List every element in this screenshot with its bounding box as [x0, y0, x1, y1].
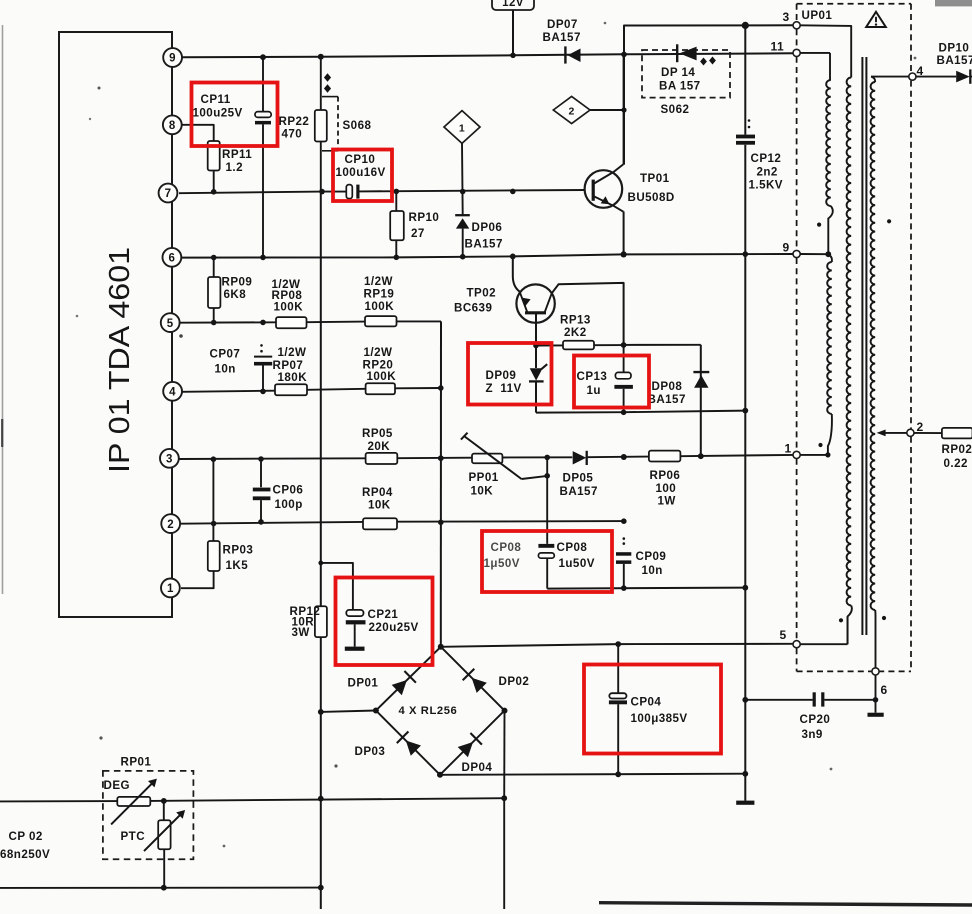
resistor RP22 470: [279, 57, 327, 192]
svg-text:BA157: BA157: [465, 237, 503, 250]
bridge diode DP03: [355, 711, 441, 775]
warning triangle: [866, 12, 886, 27]
svg-text:2K2: 2K2: [564, 326, 587, 339]
wire pin2 line: [181, 518, 627, 524]
svg-text:1: 1: [459, 122, 465, 134]
transformer UP01 dashed box: [797, 4, 911, 672]
svg-text:6K8: 6K8: [224, 288, 247, 301]
wire CP21 branch: [318, 561, 353, 610]
svg-text:RP02: RP02: [942, 443, 972, 456]
node 1: [785, 442, 801, 459]
svg-text:DP04: DP04: [462, 761, 493, 774]
svg-text:8: 8: [169, 120, 176, 132]
test point diamond 2: [553, 96, 590, 123]
diode DP14: [659, 44, 701, 92]
svg-text:RP05: RP05: [362, 427, 393, 440]
svg-text:DEG: DEG: [104, 779, 130, 792]
wire diamond2 link: [590, 107, 627, 112]
wire node5 line right stub: [800, 617, 848, 645]
capacitor CP12 2n2 1.5KV: [736, 25, 783, 191]
wire node1 stub: [800, 454, 828, 456]
svg-text:1μ50V: 1μ50V: [484, 557, 520, 570]
wire pin3 line: [179, 453, 793, 462]
svg-text:RP13: RP13: [560, 314, 591, 327]
svg-text:1.2: 1.2: [226, 161, 243, 174]
svg-text:RP22: RP22: [279, 115, 310, 128]
IC U-IP01 TDA4601 body: [59, 32, 172, 617]
resistor RP20 100K: [363, 346, 397, 395]
winding W4 secondary node4 to node6: [871, 77, 876, 668]
svg-text:7: 7: [165, 188, 172, 200]
resistor RP19 100K: [364, 275, 397, 326]
svg-text:RP11: RP11: [222, 148, 252, 161]
svg-text:11: 11: [771, 40, 785, 54]
zener DP09 Z11V: [486, 346, 548, 413]
svg-text:DP07: DP07: [547, 18, 578, 31]
resistor RP10 27: [390, 191, 439, 260]
pin 9 of IP01: [163, 48, 182, 67]
node 9: [783, 241, 801, 258]
wire right return rail: [742, 145, 748, 801]
svg-text:BA157: BA157: [560, 485, 598, 498]
svg-text:1/2W: 1/2W: [278, 346, 307, 359]
resistor RP06 100 1W: [649, 451, 681, 508]
dashed select box S062: [642, 50, 730, 116]
pin 4 of IP01: [163, 382, 182, 401]
capacitor CP04 100u385V: [609, 644, 688, 774]
capacitor CP06 100p: [253, 459, 304, 525]
svg-text:TP01: TP01: [640, 172, 670, 185]
svg-text:DP10: DP10: [939, 41, 970, 54]
grey scan block top-right: [935, 0, 972, 6]
diode DP08: [624, 345, 710, 456]
capacitor CP21 220u25V: [345, 608, 419, 651]
wire CP08 CP09 return line: [547, 585, 748, 591]
diode DP07: [543, 18, 581, 64]
svg-text:CP07: CP07: [210, 348, 241, 361]
wire TP01 emitter to 9-line: [623, 211, 625, 254]
wire pin6 to node9 line: [181, 251, 793, 260]
svg-text:9: 9: [783, 241, 790, 255]
svg-text:100K: 100K: [274, 301, 304, 314]
svg-text:10K: 10K: [471, 485, 494, 498]
transformer core: [862, 57, 866, 635]
svg-text:100K: 100K: [365, 300, 395, 313]
svg-text:DP05: DP05: [563, 472, 594, 485]
capacitor CP08 1u50V: [484, 457, 595, 588]
node 2: [907, 420, 924, 436]
wire 12V stub: [512, 10, 514, 55]
wire node2 tap with arrow: [877, 430, 942, 437]
wire DP09 CP13 return line: [536, 408, 748, 415]
wire DC minus line: [440, 771, 748, 777]
resistor RP0 0.22: [942, 428, 972, 470]
highlight box CP11: [192, 83, 278, 147]
svg-text:BA157: BA157: [937, 54, 972, 67]
wire pin4 line: [182, 388, 441, 392]
svg-text:3: 3: [783, 10, 790, 24]
svg-text:3: 3: [166, 454, 173, 466]
wire pin8 to RP11: [182, 125, 214, 141]
ground node6: [868, 713, 884, 717]
bridge diode DP02: [441, 647, 530, 711]
potentiometer PP01 10K: [461, 433, 550, 498]
svg-text:1u50V: 1u50V: [559, 557, 595, 570]
svg-text:Z 11V: Z 11V: [486, 382, 522, 395]
svg-text:12V: 12V: [502, 0, 524, 9]
wire pin7 line: [179, 189, 585, 195]
svg-text:S068: S068: [343, 119, 372, 132]
bottom separator line: [599, 903, 972, 905]
wire TP02 collector: [552, 283, 624, 345]
wire diamond1 to DP06: [461, 143, 464, 214]
svg-text:10n: 10n: [215, 362, 236, 375]
svg-text:DP01: DP01: [348, 676, 379, 689]
highlight box CP13: [574, 356, 649, 408]
svg-text:BA157: BA157: [543, 31, 581, 44]
wire TP02 base from pin6 line: [513, 256, 520, 291]
node 4: [909, 64, 924, 80]
capacitor CP11 100u25V: [193, 54, 272, 257]
pin 2 of IP01: [161, 514, 180, 533]
svg-text:RP06: RP06: [650, 469, 681, 482]
node 11: [771, 40, 801, 57]
svg-text:RP09: RP09: [222, 275, 253, 288]
node 3: [783, 10, 801, 29]
svg-text:100K: 100K: [367, 370, 397, 383]
pin 3 of IP01: [160, 449, 179, 468]
svg-text:1K5: 1K5: [226, 559, 249, 572]
winding W2 node9 to node1: [825, 254, 832, 457]
svg-text:CP08: CP08: [557, 541, 588, 554]
winding W1 node11 to node9: [800, 53, 833, 257]
wire main vertical rail x320: [318, 192, 324, 910]
svg-text:4 X RL256: 4 X RL256: [399, 705, 458, 717]
svg-text:BA 157: BA 157: [659, 79, 701, 92]
svg-text:S062: S062: [661, 103, 690, 116]
transistor TP02 BC639: [454, 284, 555, 345]
asterisk marks RP22: [324, 73, 331, 92]
svg-text:IP 01 TDA 4601: IP 01 TDA 4601: [104, 247, 136, 473]
svg-text:RP10: RP10: [409, 211, 440, 224]
svg-text:DP 14: DP 14: [661, 66, 695, 79]
svg-text:100μ385V: 100μ385V: [631, 712, 688, 725]
resistor RP09 6K8: [208, 258, 252, 326]
resistor RP08 100K: [272, 278, 307, 328]
diode DP10 BA157: [937, 41, 972, 83]
polarity dots windings: [817, 219, 891, 622]
svg-text:CP20: CP20: [800, 713, 831, 726]
wire bridge left feed: [321, 711, 376, 712]
svg-text:CP13: CP13: [577, 370, 608, 383]
transistor TP01 BU508D: [585, 165, 675, 212]
highlight box CP08: [482, 531, 612, 592]
capacitor CP10 100u16V in pin7 line: [336, 153, 386, 199]
svg-text:4: 4: [169, 387, 176, 399]
highlight box DP09: [468, 343, 552, 405]
wire bridge AC right drop: [501, 711, 507, 909]
svg-text:5: 5: [167, 318, 174, 330]
diode DP05 BA157: [560, 451, 598, 498]
svg-text:CP21: CP21: [368, 608, 399, 621]
thermistor PTC: [121, 801, 186, 888]
svg-text:100: 100: [656, 482, 677, 495]
resistor RP05 20K: [362, 427, 397, 464]
svg-text:180K: 180K: [278, 371, 308, 384]
svg-text:DP06: DP06: [472, 221, 503, 234]
node 6: [872, 668, 888, 697]
svg-text:DP09: DP09: [486, 369, 517, 382]
svg-text:BA157: BA157: [648, 393, 686, 406]
resistor RP03 1K5: [181, 459, 253, 588]
svg-text:PP01: PP01: [469, 471, 499, 484]
svg-text:CP09: CP09: [636, 550, 667, 563]
resistor RP11 1.2: [208, 141, 253, 192]
svg-text:PTC: PTC: [121, 830, 146, 843]
resistor RP13 2K2: [533, 314, 626, 350]
svg-text:2n2: 2n2: [757, 165, 778, 178]
highlight box CP04: [584, 665, 721, 754]
svg-text:1.5KV: 1.5KV: [749, 179, 783, 192]
svg-text:1/2W: 1/2W: [364, 275, 393, 288]
svg-text:DP08: DP08: [652, 380, 683, 393]
resistor RP04 10K: [362, 486, 397, 529]
svg-text:CP 02: CP 02: [9, 830, 43, 843]
svg-text:RP01: RP01: [121, 756, 152, 769]
junction bridge vertices: [373, 644, 508, 778]
svg-text:2: 2: [568, 105, 574, 117]
wire AC line upper: [0, 798, 504, 804]
node 5: [780, 628, 801, 648]
svg-text:6: 6: [168, 253, 175, 265]
svg-text:220u25V: 220u25V: [369, 621, 419, 634]
svg-text:5: 5: [780, 628, 787, 642]
svg-text:1: 1: [167, 583, 174, 595]
wire pin5 line: [180, 320, 441, 326]
svg-text:20K: 20K: [368, 440, 391, 453]
svg-text:RP03: RP03: [223, 544, 254, 557]
capacitor CP02 68n250V label: [0, 830, 50, 861]
svg-text:CP04: CP04: [631, 695, 662, 708]
svg-text:CP06: CP06: [273, 484, 304, 497]
svg-text:9: 9: [169, 53, 176, 65]
svg-text:CP10: CP10: [345, 153, 376, 166]
wire DC plus line to node5: [441, 641, 793, 647]
highlight box CP10: [333, 150, 392, 202]
ground right rail: [736, 801, 754, 805]
svg-text:2: 2: [167, 519, 174, 531]
pin 8 of IP01: [163, 115, 182, 134]
test point diamond 1: [444, 111, 480, 144]
asterisk marks DP14: [700, 57, 716, 66]
wire node3 branch: [624, 22, 793, 165]
svg-text:6: 6: [881, 683, 888, 697]
svg-text:1: 1: [785, 442, 792, 456]
svg-text:DP03: DP03: [355, 745, 386, 758]
capacitor CP07 10n: [210, 344, 273, 394]
scan specks: [76, 22, 917, 848]
svg-text:DP02: DP02: [499, 675, 530, 688]
svg-text:100u25V: 100u25V: [193, 107, 243, 120]
svg-text:CP11: CP11: [201, 93, 231, 106]
highlight box CP21: [336, 578, 433, 666]
pin 7 of IP01: [159, 184, 178, 203]
svg-text:68n250V: 68n250V: [0, 848, 50, 861]
pin 5 of IP01: [161, 313, 180, 332]
svg-text:10K: 10K: [368, 499, 391, 512]
svg-text:100u16V: 100u16V: [336, 166, 386, 179]
svg-text:10n: 10n: [642, 564, 663, 577]
wire AC line lower: [0, 885, 321, 891]
bridge label 4xRL256: [399, 705, 458, 717]
degaussing resistor RP01 box: [103, 756, 193, 860]
svg-text:1u: 1u: [587, 384, 601, 397]
capacitor CP13 1u: [577, 345, 633, 412]
winding W3 primary node3 to node5: [797, 25, 852, 644]
diode DP06: [455, 215, 503, 259]
bridge diode DP04: [440, 711, 505, 775]
svg-text:1/2W: 1/2W: [364, 346, 393, 359]
svg-text:3n9: 3n9: [802, 728, 823, 741]
varistor DEG: [104, 779, 157, 825]
resistor RP12 10R 3W: [290, 605, 327, 639]
svg-text:100p: 100p: [275, 498, 303, 511]
svg-text:RP04: RP04: [362, 486, 393, 499]
wire node4 line: [871, 76, 956, 78]
wire TP01 collector: [623, 54, 625, 164]
svg-text:27: 27: [411, 227, 425, 240]
connector 12V box: [492, 0, 534, 10]
resistor RP07 180K: [273, 346, 308, 395]
svg-text:UP01: UP01: [802, 9, 833, 22]
svg-text:BC639: BC639: [454, 302, 492, 315]
svg-text:0.22: 0.22: [944, 457, 968, 470]
svg-text:1W: 1W: [658, 495, 676, 508]
wire right column x441: [438, 321, 444, 646]
capacitor CP09 10n: [616, 537, 666, 588]
svg-text:TP02: TP02: [467, 287, 497, 300]
wire node6 drop and ground: [873, 675, 879, 713]
bridge diode DP01: [348, 647, 441, 711]
svg-text:3W: 3W: [292, 626, 310, 639]
wire node9 stub: [800, 253, 828, 255]
capacitor CP20 3n9: [745, 692, 875, 741]
svg-text:470: 470: [282, 128, 303, 141]
pin 6 of IP01: [163, 248, 182, 267]
svg-text:BU508D: BU508D: [628, 191, 675, 204]
pin 1 of IP01: [161, 579, 180, 598]
dashed link S068: [322, 97, 371, 151]
svg-text:RP19: RP19: [364, 288, 395, 301]
svg-text:CP08: CP08: [491, 541, 522, 554]
svg-text:CP12: CP12: [751, 152, 782, 165]
wire pin9 rail to node 11: [182, 52, 793, 60]
scan edge line left: [1, 25, 3, 594]
